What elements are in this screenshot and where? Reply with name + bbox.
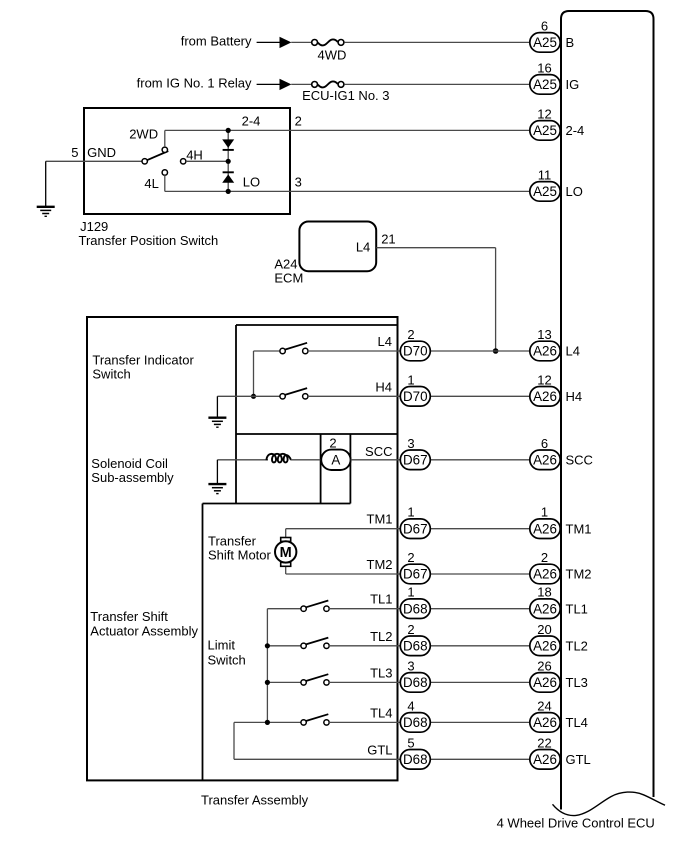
connector D68 pin 4 (TL4) <box>400 698 430 732</box>
svg-text:Transfer Shift: Transfer Shift <box>90 609 168 624</box>
connector A25 pin 6 (B) <box>530 18 560 52</box>
svg-text:20: 20 <box>537 622 551 637</box>
svg-text:Limit: Limit <box>208 638 236 653</box>
label Transfer Position Switch <box>79 233 219 248</box>
svg-text:24: 24 <box>537 698 551 713</box>
node diode top <box>226 128 231 133</box>
ground G2 <box>208 396 226 427</box>
box 4 Wheel Drive Control ECU <box>561 11 654 810</box>
svg-text:D70: D70 <box>403 389 428 404</box>
motor M terminals <box>281 538 291 567</box>
wire GND <box>46 160 142 162</box>
svg-text:D67: D67 <box>403 521 428 536</box>
svg-text:D68: D68 <box>403 601 428 616</box>
connector D68 pin 5 (GTL) <box>400 735 430 769</box>
label SCC left <box>365 444 392 459</box>
svg-text:SCC: SCC <box>566 452 593 467</box>
label H4 right <box>566 389 583 404</box>
svg-text:6: 6 <box>541 436 548 451</box>
svg-text:A25: A25 <box>533 184 557 199</box>
svg-text:from Battery: from Battery <box>181 33 252 48</box>
wire L4 to D70 <box>308 350 400 352</box>
connector A26 pin 1 (TM1) <box>530 505 560 539</box>
svg-text:Transfer Indicator: Transfer Indicator <box>92 352 194 367</box>
diode D1 (down) <box>222 139 234 150</box>
label Transfer Shift <box>90 609 168 624</box>
svg-text:Sub-assembly: Sub-assembly <box>91 470 174 485</box>
wire TM2 D67-A26 <box>430 573 530 575</box>
svg-text:A25: A25 <box>533 35 557 50</box>
svg-text:4: 4 <box>407 698 414 713</box>
wire 2-4 row <box>165 129 530 131</box>
label L4 in ECM <box>356 240 370 255</box>
contact 4L <box>162 170 167 192</box>
label Transfer (motor) <box>208 533 257 548</box>
label TL2 right <box>566 638 588 653</box>
svg-text:12: 12 <box>537 372 551 387</box>
wire jog L4-H4 <box>253 351 255 396</box>
svg-text:H4: H4 <box>566 389 583 404</box>
svg-text:TL2: TL2 <box>566 638 588 653</box>
svg-text:Switch: Switch <box>92 367 130 382</box>
node bus TL2 <box>265 643 270 648</box>
svg-text:2WD: 2WD <box>129 127 158 142</box>
label IG <box>566 77 580 92</box>
node bus TL4 <box>265 720 270 725</box>
svg-text:2: 2 <box>407 550 414 565</box>
svg-text:TM2: TM2 <box>566 567 592 582</box>
wire GTL <box>234 758 400 760</box>
svg-text:1: 1 <box>407 372 414 387</box>
svg-text:2: 2 <box>295 114 302 129</box>
label 2WD <box>129 127 158 142</box>
fuse 4WD <box>291 40 530 46</box>
label B <box>566 35 575 50</box>
label pin 21 <box>381 232 395 247</box>
box Transfer Assembly <box>87 317 398 780</box>
label TM2 left <box>367 557 393 572</box>
label TL4 left <box>370 705 392 720</box>
wire TL3 left <box>267 681 301 683</box>
connector D68 pin 2 (TL2) <box>400 622 430 656</box>
text from Battery <box>181 33 252 48</box>
label 2-4 right <box>566 123 585 138</box>
label L4 left <box>378 334 392 349</box>
label Transfer Assembly <box>201 792 309 807</box>
svg-text:2: 2 <box>407 327 414 342</box>
svg-text:2-4: 2-4 <box>566 123 585 138</box>
connector A25 pin 12 (2-4) <box>530 106 560 140</box>
svg-text:4WD: 4WD <box>318 48 347 63</box>
diode D2 (up) <box>222 172 234 183</box>
label 2-4 inside <box>242 114 261 129</box>
label A24 <box>274 256 297 271</box>
svg-text:TL4: TL4 <box>566 715 588 730</box>
label TL3 left <box>370 665 392 680</box>
label ECU-IG1 No. 3 <box>302 88 389 103</box>
svg-text:GND: GND <box>87 145 116 160</box>
connector A26 pin 18 (TL1) <box>530 585 560 619</box>
label 4H <box>186 148 203 163</box>
box A24 ECM <box>299 222 376 272</box>
svg-text:A26: A26 <box>533 453 557 468</box>
wire TL1 D68-A26 <box>430 608 530 610</box>
wire H4 left to ground <box>217 395 280 397</box>
svg-text:from IG No. 1 Relay: from IG No. 1 Relay <box>137 75 252 90</box>
node diode bottom <box>226 189 231 194</box>
connector A26 pin 20 (TL2) <box>530 622 560 656</box>
svg-text:A: A <box>331 453 340 468</box>
box Transfer Indicator Switch <box>236 325 398 504</box>
label TL2 left <box>370 629 392 644</box>
label LO inside <box>243 175 260 190</box>
wire coil to A <box>291 459 322 461</box>
svg-text:12: 12 <box>537 106 551 121</box>
label 4L <box>144 176 158 191</box>
svg-text:M: M <box>280 545 292 561</box>
label L4 right <box>566 344 580 359</box>
label TL1 right <box>566 601 588 616</box>
wire ECM L4 to node <box>376 248 495 351</box>
label pin 3 outside <box>295 175 302 190</box>
label TM2 right <box>566 567 592 582</box>
svg-text:TL1: TL1 <box>566 601 588 616</box>
connector D70 pin 1 (H4) <box>400 372 430 406</box>
connector D67 pin 3 (SCC) <box>400 436 430 470</box>
svg-text:A26: A26 <box>533 715 557 730</box>
wire H4 to D70 <box>308 395 400 397</box>
label TL4 right <box>566 715 588 730</box>
svg-text:A26: A26 <box>533 752 557 767</box>
wire TL3 D68-A26 <box>430 681 530 683</box>
svg-text:5: 5 <box>71 145 78 160</box>
switch TL1 <box>301 601 329 612</box>
svg-text:TM1: TM1 <box>566 521 592 536</box>
svg-text:GTL: GTL <box>566 752 591 767</box>
svg-text:3: 3 <box>407 436 414 451</box>
text from IG No. 1 Relay <box>137 75 252 90</box>
svg-text:D68: D68 <box>403 639 428 654</box>
label 4 Wheel Drive Control ECU <box>497 816 655 831</box>
contact 2WD <box>162 130 167 152</box>
node L4 junction <box>493 348 499 354</box>
motor M circle <box>275 541 296 562</box>
svg-text:TL3: TL3 <box>370 665 392 680</box>
svg-text:D68: D68 <box>403 752 428 767</box>
svg-text:1: 1 <box>407 505 414 520</box>
wire L4 left <box>254 350 281 352</box>
svg-text:1: 1 <box>407 585 414 600</box>
label Sub-assembly <box>91 470 174 485</box>
svg-text:L4: L4 <box>378 334 392 349</box>
label TM1 left <box>367 512 393 527</box>
connector D67 pin 1 (TM1) <box>400 505 430 539</box>
ECU bottom break wave <box>553 792 666 815</box>
svg-text:4L: 4L <box>144 176 158 191</box>
svg-text:Actuator Assembly: Actuator Assembly <box>90 623 198 638</box>
label Shift Motor <box>208 548 272 563</box>
svg-text:A26: A26 <box>533 521 557 536</box>
svg-text:13: 13 <box>537 327 551 342</box>
wire TM2 <box>286 566 401 574</box>
ground G1 <box>37 161 55 216</box>
switch L4 <box>280 343 308 354</box>
arrow from Battery <box>257 37 292 48</box>
label 4WD <box>318 48 347 63</box>
label Solenoid Coil <box>91 456 168 471</box>
wire L4 D70-A26 <box>430 350 530 352</box>
connector A25 pin 11 (LO) <box>530 167 560 201</box>
label pin 5 <box>71 145 78 160</box>
contact 4H <box>181 159 229 164</box>
connector A26 pin 26 (TL3) <box>530 658 560 692</box>
wire SCC D67-A26 <box>430 459 530 461</box>
svg-text:L4: L4 <box>356 240 370 255</box>
svg-text:A25: A25 <box>533 123 557 138</box>
label GTL left <box>367 742 392 757</box>
connector A pin 2 <box>321 435 350 470</box>
wire TL4 left <box>234 721 301 723</box>
connector A26 pin 2 (TM2) <box>530 550 560 584</box>
svg-text:6: 6 <box>541 18 548 33</box>
label Actuator Assembly <box>90 623 198 638</box>
connector D68 pin 1 (TL1) <box>400 585 430 619</box>
wire LO row <box>165 190 530 192</box>
connector A26 pin 12 (H4) <box>530 372 560 406</box>
label TM1 right <box>566 521 592 536</box>
wire TL1 left <box>267 608 301 610</box>
svg-text:Transfer Position Switch: Transfer Position Switch <box>79 233 219 248</box>
label LO right <box>566 184 583 199</box>
svg-text:2: 2 <box>541 550 548 565</box>
node H4 junction <box>251 394 256 399</box>
wire TM1 D67-A26 <box>430 528 530 530</box>
svg-text:TM2: TM2 <box>367 557 393 572</box>
svg-text:2-4: 2-4 <box>242 114 261 129</box>
svg-text:2: 2 <box>329 435 336 450</box>
svg-text:L4: L4 <box>566 344 580 359</box>
svg-text:A26: A26 <box>533 675 557 690</box>
label Limit <box>208 638 236 653</box>
svg-text:Transfer: Transfer <box>208 533 257 548</box>
svg-text:Transfer Assembly: Transfer Assembly <box>201 792 309 807</box>
wire diode column <box>227 130 229 191</box>
svg-text:2: 2 <box>407 622 414 637</box>
connector D67 pin 2 (TM2) <box>400 550 430 584</box>
wire H4 D70-A26 <box>430 395 530 397</box>
svg-text:A24: A24 <box>274 256 297 271</box>
svg-text:A26: A26 <box>533 567 557 582</box>
ground G3 <box>208 460 226 494</box>
svg-text:4 Wheel Drive Control ECU: 4 Wheel Drive Control ECU <box>497 816 655 831</box>
connector D70 pin 2 (L4) <box>400 327 430 361</box>
label TL3 right <box>566 675 588 690</box>
arrow from IG relay <box>257 79 292 90</box>
label Switch (limit) <box>208 652 246 667</box>
svg-text:22: 22 <box>537 735 551 750</box>
svg-text:B: B <box>566 35 575 50</box>
label J129 <box>80 219 108 234</box>
connector A26 pin 22 (GTL) <box>530 735 560 769</box>
switch TL4 <box>301 714 329 725</box>
connector D68 pin 3 (TL3) <box>400 658 430 692</box>
svg-text:TL4: TL4 <box>370 705 392 720</box>
label H4 left <box>375 379 392 394</box>
svg-text:3: 3 <box>407 658 414 673</box>
svg-text:21: 21 <box>381 232 395 247</box>
switch pole 2WD blade <box>142 151 168 164</box>
wire A to D67 <box>351 459 401 461</box>
switch TL3 <box>301 674 329 685</box>
wire jog TL4-GTL <box>233 722 235 759</box>
svg-text:Solenoid Coil: Solenoid Coil <box>91 456 168 471</box>
svg-text:LO: LO <box>566 184 583 199</box>
svg-text:D67: D67 <box>403 453 428 468</box>
box Solenoid sub <box>203 434 351 504</box>
switch H4 <box>280 388 308 399</box>
box J129 transfer position switch <box>84 108 290 214</box>
svg-text:11: 11 <box>538 167 552 182</box>
wire TL4 D68-A26 <box>430 721 530 723</box>
wire GTL D68-A26 <box>430 758 530 760</box>
connector A25 pin 16 (IG) <box>530 60 560 94</box>
svg-text:26: 26 <box>537 658 551 673</box>
label GTL right <box>566 752 591 767</box>
label SCC right <box>566 452 593 467</box>
wire SCC left <box>217 459 268 461</box>
svg-text:D68: D68 <box>403 675 428 690</box>
label pin 2 outside <box>295 114 302 129</box>
svg-text:Switch: Switch <box>208 652 246 667</box>
svg-text:5: 5 <box>407 735 414 750</box>
label ECM <box>274 271 303 286</box>
svg-text:D67: D67 <box>403 567 428 582</box>
wire TL2 D68-A26 <box>430 645 530 647</box>
svg-text:A26: A26 <box>533 601 557 616</box>
fuse ECU-IG1 No. 3 <box>291 82 530 88</box>
wire TM1 <box>286 529 401 538</box>
connector A26 pin 24 (TL4) <box>530 698 560 732</box>
label TL1 left <box>370 592 392 607</box>
box motor-limit left edge <box>202 504 204 781</box>
svg-text:GTL: GTL <box>367 742 392 757</box>
node bus TL3 <box>265 680 270 685</box>
svg-text:4H: 4H <box>186 148 203 163</box>
node diode mid 4H <box>226 159 231 164</box>
svg-text:D68: D68 <box>403 715 428 730</box>
svg-text:A26: A26 <box>533 344 557 359</box>
svg-text:16: 16 <box>537 60 551 75</box>
wire TL2 left <box>267 645 301 647</box>
svg-text:A26: A26 <box>533 639 557 654</box>
inductor solenoid coil <box>267 454 292 463</box>
label Switch (indicator) <box>92 367 130 382</box>
label Transfer Indicator <box>92 352 194 367</box>
svg-text:H4: H4 <box>375 379 392 394</box>
connector A26 pin 6 (SCC) <box>530 436 560 470</box>
svg-text:TM1: TM1 <box>367 512 393 527</box>
wire TL3 to D68 <box>329 681 400 683</box>
svg-text:TL2: TL2 <box>370 629 392 644</box>
svg-text:3: 3 <box>295 175 302 190</box>
svg-text:18: 18 <box>537 585 551 600</box>
wire TL1 to D68 <box>329 608 400 610</box>
wire TL4 to D68 <box>329 721 400 723</box>
svg-text:IG: IG <box>566 77 580 92</box>
svg-text:J129: J129 <box>80 219 108 234</box>
wire limit bus <box>266 609 268 723</box>
svg-text:ECM: ECM <box>274 271 303 286</box>
svg-text:A25: A25 <box>533 77 557 92</box>
switch TL2 <box>301 638 329 649</box>
label GND <box>87 145 116 160</box>
svg-text:TL3: TL3 <box>566 675 588 690</box>
svg-text:ECU-IG1 No. 3: ECU-IG1 No. 3 <box>302 88 389 103</box>
svg-text:Shift Motor: Shift Motor <box>208 548 272 563</box>
svg-text:TL1: TL1 <box>370 592 392 607</box>
svg-text:A26: A26 <box>533 389 557 404</box>
connector A26 pin 13 (L4) <box>530 327 560 361</box>
svg-text:SCC: SCC <box>365 444 392 459</box>
svg-text:1: 1 <box>541 505 548 520</box>
wire TL2 to D68 <box>329 645 400 647</box>
svg-text:D70: D70 <box>403 344 428 359</box>
svg-text:LO: LO <box>243 175 260 190</box>
